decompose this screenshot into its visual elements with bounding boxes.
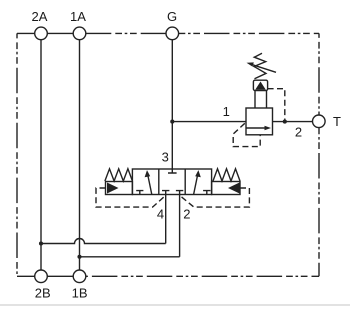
relief valve flow path arrow shaft	[246, 127, 265, 129]
relief valve poppet box	[253, 80, 267, 90]
svg-text:1B: 1B	[72, 286, 88, 301]
valve center square port 3 blocked symbol	[168, 169, 177, 173]
valve left square flow arrow shaft	[148, 176, 152, 195]
junction dot on 1A line	[77, 255, 81, 259]
left pilot line dashed from port 4	[96, 188, 166, 207]
valve center square port 4 blocked symbol	[162, 191, 169, 195]
valve right square flow arrow head	[195, 170, 201, 177]
port 2A circle	[35, 27, 48, 40]
port 1A circle	[73, 27, 86, 40]
wire port4 branch horizontal with bridge over 1A line	[41, 239, 166, 244]
relief valve spring	[254, 53, 266, 79]
svg-text:1: 1	[223, 104, 230, 119]
junction dot on G line at relief inlet	[170, 120, 174, 124]
relief valve stem right wall	[266, 91, 268, 109]
wire relief valve outlet to T	[273, 121, 313, 123]
relief valve pilot line dashed to outlet node	[268, 89, 285, 122]
boundary top edge dash-dot segment 1A to G	[86, 32, 166, 34]
wire port2 branch vertical	[179, 195, 181, 257]
relief valve flow path arrow head	[265, 126, 272, 130]
wire 1A to 1B vertical	[79, 40, 81, 270]
wire port2 branch horizontal	[80, 256, 180, 258]
right actuator pilot triangle	[228, 183, 240, 194]
svg-text:4: 4	[157, 207, 164, 222]
bottom separator line	[0, 304, 350, 306]
left actuator pilot box	[106, 182, 133, 195]
relief valve adjustment arrow head	[247, 62, 254, 66]
wire 2A to 2B vertical	[40, 40, 42, 270]
boundary top edge solid segment left corner to port 2A	[17, 32, 35, 34]
port T circle	[313, 115, 326, 128]
junction dot on 2A line	[39, 241, 43, 245]
left centering spring	[105, 169, 132, 181]
valve left square blocked port symbol	[136, 191, 143, 195]
directional valve V1 inner division left	[158, 169, 160, 195]
wire port4 branch vertical	[165, 195, 167, 244]
valve left square flow arrow head	[145, 170, 151, 177]
svg-text:2: 2	[183, 207, 190, 222]
svg-text:2B: 2B	[35, 286, 51, 301]
boundary top edge dash-dot segment G to top-right corner	[179, 32, 319, 34]
boundary left edge dash-dot	[16, 33, 18, 276]
wire relief valve inlet from node	[172, 121, 246, 123]
relief valve stem left wall	[254, 91, 256, 109]
relief valve adjustment arrow shaft	[252, 64, 277, 72]
wire G down to valve port 3	[171, 40, 173, 169]
directional valve V1 body outline	[132, 169, 211, 195]
directional valve V1 inner division right	[184, 169, 186, 195]
svg-text:2A: 2A	[32, 9, 48, 24]
valve right square flow arrow shaft	[194, 176, 198, 195]
junction dot at relief outlet pilot tap	[283, 120, 287, 124]
svg-text:T: T	[333, 114, 341, 129]
boundary bottom edge solid segment between 1B and 2B	[47, 275, 73, 277]
port G circle	[166, 27, 179, 40]
boundary top edge solid segment between 2A and 1A	[47, 32, 73, 34]
port 1B circle	[73, 270, 86, 283]
relief valve RV body	[246, 108, 273, 135]
port 2B circle	[35, 270, 48, 283]
valve center square port 2 blocked symbol	[176, 191, 183, 195]
svg-text:3: 3	[162, 150, 169, 165]
boundary right edge dash-dot T to bottom-right corner	[318, 128, 320, 277]
right centering spring	[213, 169, 240, 181]
svg-text:1A: 1A	[70, 9, 86, 24]
right pilot line dashed from port 2	[180, 188, 250, 207]
boundary bottom edge dash-dot corner to port 1B	[86, 275, 319, 277]
right actuator pilot box	[212, 182, 240, 195]
relief valve drain line dashed loop	[233, 123, 260, 146]
relief valve poppet triangle	[255, 82, 266, 90]
left actuator pilot triangle	[107, 183, 119, 194]
boundary right edge dash-dot corner to port T	[318, 33, 320, 115]
svg-text:2: 2	[295, 125, 302, 140]
valve right square blocked port symbol	[203, 191, 210, 195]
svg-text:G: G	[167, 9, 177, 24]
boundary bottom edge solid segment 2B to left corner	[17, 275, 35, 277]
